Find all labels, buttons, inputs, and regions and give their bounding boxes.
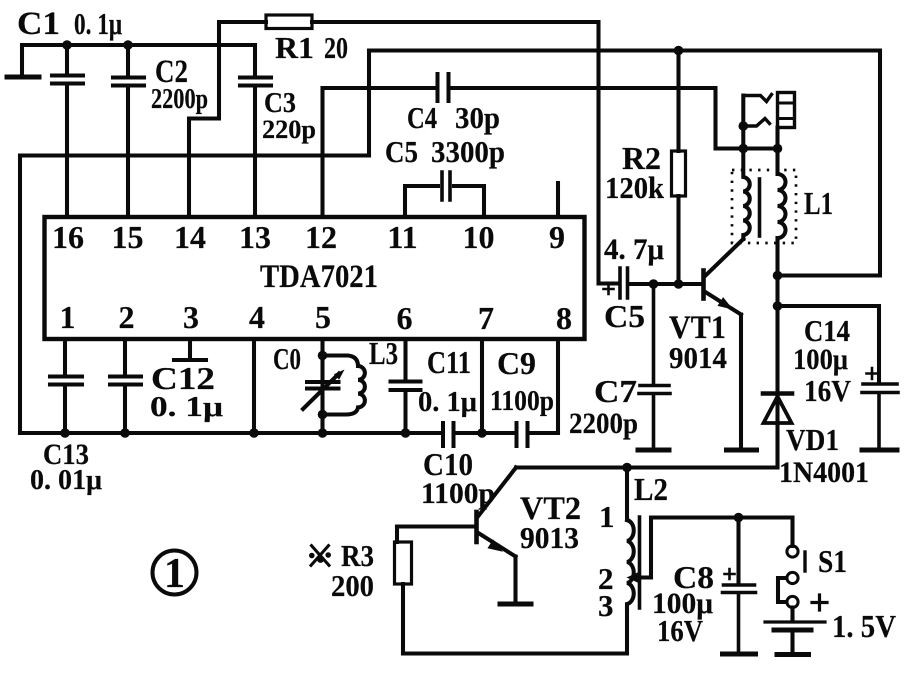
- ground battery: [777, 652, 809, 657]
- switch S1 contact 1: [787, 546, 798, 557]
- reference mark: [309, 545, 331, 567]
- battery long plate: [765, 620, 825, 623]
- svg-text:14: 14: [174, 219, 206, 255]
- antenna stub: [7, 75, 39, 80]
- svg-text:VD1: VD1: [786, 422, 839, 457]
- svg-text:7: 7: [478, 300, 494, 336]
- svg-text:16: 16: [52, 219, 84, 255]
- figure number circle: [153, 551, 197, 595]
- svg-text:C7: C7: [594, 373, 637, 409]
- node L3 top: [318, 351, 328, 361]
- L2 tap arrow: [634, 575, 651, 579]
- pin 9 stub: [556, 183, 560, 217]
- wire riser to top rail: [367, 51, 371, 156]
- svg-text:11: 11: [387, 219, 417, 255]
- inductor L2 winding: [627, 520, 634, 608]
- svg-text:30p: 30p: [455, 100, 500, 135]
- wire pin6 lead: [403, 339, 407, 379]
- ground bus: [20, 431, 558, 435]
- node bus pin7: [477, 428, 487, 438]
- capacitor C9: [517, 423, 528, 446]
- wire VT1 base node: [630, 282, 702, 286]
- svg-text:9013: 9013: [520, 520, 579, 555]
- svg-text:100μ: 100μ: [793, 343, 848, 376]
- node bus C11: [401, 428, 411, 438]
- svg-text:R1: R1: [275, 30, 314, 65]
- diode VD1 triangle: [764, 397, 792, 424]
- capacitor C13: [50, 377, 82, 434]
- svg-text:3300p: 3300p: [431, 134, 505, 169]
- svg-text:2200p: 2200p: [151, 83, 208, 115]
- capacitor C7: [639, 284, 670, 448]
- node C8 top: [734, 513, 744, 523]
- inductor L1 right winding: [778, 149, 786, 241]
- wire L1 down to VD1: [775, 240, 779, 468]
- svg-text:TDA7021: TDA7021: [260, 259, 378, 295]
- node C5 to C7: [649, 279, 659, 289]
- svg-text:12: 12: [305, 219, 337, 255]
- svg-text:3: 3: [598, 588, 614, 623]
- wire C14 branch: [778, 306, 880, 383]
- node plug bottom: [773, 144, 783, 154]
- wire VT2 emitter to ground: [513, 557, 517, 603]
- capacitor C14: [862, 384, 898, 448]
- node top-left C1 rail: [22, 45, 255, 74]
- switch S1 contact 2: [787, 572, 798, 583]
- wire R1 to C5 electrolytic: [312, 22, 617, 284]
- wire pin4 lead: [252, 339, 256, 433]
- wire C5b bridge pins 11-10: [405, 186, 484, 217]
- wire L2 bottom lead: [625, 608, 629, 654]
- switch S1 lever bar: [803, 552, 806, 571]
- resistor R2: [672, 151, 686, 196]
- resistor R2 leads: [676, 51, 680, 285]
- battery B1 lead: [790, 608, 794, 621]
- battery short plate: [774, 628, 811, 633]
- wire pin1 lead: [63, 339, 67, 375]
- resistor R3 leads: [397, 527, 403, 654]
- ground VT1: [727, 448, 757, 453]
- svg-text:0. 1μ: 0. 1μ: [74, 6, 122, 41]
- ground C14: [862, 448, 897, 453]
- wire bottom rail: [403, 651, 627, 655]
- wire top rail to right edge: [369, 51, 880, 276]
- ground C7: [638, 448, 669, 453]
- svg-text:0. 1μ: 0. 1μ: [418, 386, 478, 418]
- inductor L3: [323, 356, 365, 415]
- capacitor C10: [443, 423, 454, 446]
- wire pin14 to R1: [189, 22, 266, 217]
- svg-text:5: 5: [315, 299, 331, 335]
- node bus pin5: [318, 428, 328, 438]
- svg-text:1: 1: [60, 299, 76, 335]
- svg-text:L1: L1: [804, 185, 833, 221]
- svg-text:1: 1: [164, 551, 185, 597]
- ground VT2: [500, 602, 531, 607]
- svg-text:1. 5V: 1. 5V: [832, 608, 896, 644]
- node bus pin4: [249, 428, 259, 438]
- inductor L2 core: [638, 517, 642, 608]
- svg-text:1100p: 1100p: [490, 385, 554, 417]
- svg-text:C0: C0: [273, 341, 301, 376]
- capacitor C5 3300p: [442, 172, 450, 200]
- pin3 stub: [174, 339, 206, 360]
- wire pin7 lead: [480, 339, 484, 433]
- capacitor C8 lead: [736, 518, 740, 584]
- wire jack left contact riser: [741, 96, 745, 149]
- svg-text:10: 10: [463, 219, 495, 255]
- svg-text:16V: 16V: [657, 613, 704, 648]
- wire pin8 lead: [556, 339, 560, 433]
- L1 dotted box: [732, 170, 796, 243]
- svg-text:20: 20: [324, 30, 348, 65]
- wire C4 right lead to jack node: [452, 88, 778, 149]
- node L3 bottom: [318, 410, 328, 420]
- node C14 branch: [773, 301, 783, 311]
- capacitor C3: [240, 45, 271, 217]
- wire VT2 base: [397, 524, 475, 528]
- switch S1 bracket: [778, 578, 787, 602]
- svg-text:C5: C5: [604, 298, 645, 334]
- pin numbers bottom: [60, 299, 573, 336]
- svg-text:9: 9: [549, 219, 565, 255]
- earphone jack top contact: [743, 95, 771, 102]
- op-amp IC U1 TDA7021 body: [45, 217, 585, 339]
- svg-text:C5: C5: [385, 134, 418, 169]
- battery plus sign: [812, 595, 827, 610]
- svg-text:L3: L3: [369, 335, 398, 371]
- switch S1 contact 3: [787, 596, 798, 607]
- svg-text:0. 01μ: 0. 01μ: [30, 464, 103, 496]
- node VT2 collector: [622, 463, 632, 473]
- svg-text:2200p: 2200p: [569, 407, 638, 440]
- svg-text:1: 1: [599, 499, 615, 534]
- node L1 bottom: [773, 271, 783, 281]
- node jack mid: [739, 121, 749, 131]
- svg-text:15: 15: [112, 219, 144, 255]
- battery stem: [790, 633, 794, 653]
- resistor R3: [395, 542, 412, 584]
- pin numbers top: [52, 219, 565, 255]
- node jack left bottom: [739, 144, 749, 154]
- node bus C13: [60, 428, 70, 438]
- svg-text:C9: C9: [497, 345, 536, 381]
- earphone plug: [778, 93, 795, 128]
- wire L2 top lead: [625, 468, 629, 518]
- wire C4 left lead: [323, 86, 435, 90]
- node C2 top: [123, 40, 133, 50]
- svg-text:1N4001: 1N4001: [779, 456, 869, 489]
- svg-text:6: 6: [397, 300, 413, 336]
- svg-text:C1: C1: [17, 6, 60, 42]
- C14 plus sign: [867, 368, 878, 379]
- node R2 top: [674, 46, 684, 56]
- wire tap to switch rail: [651, 518, 793, 578]
- svg-text:220p: 220p: [262, 115, 316, 144]
- svg-text:16V: 16V: [804, 373, 852, 408]
- transistor VT2 emitter: [478, 533, 516, 557]
- inductor L1 core: [758, 179, 762, 236]
- wire pin2 lead: [123, 339, 127, 375]
- node C1 top: [62, 40, 72, 50]
- svg-text:4: 4: [249, 299, 265, 335]
- capacitor C1: [52, 45, 83, 217]
- svg-text:13: 13: [239, 219, 271, 255]
- svg-text:C11: C11: [427, 344, 471, 380]
- svg-text:120k: 120k: [605, 170, 665, 205]
- svg-text:1100p: 1100p: [421, 477, 495, 510]
- variable capacitor C0: [307, 382, 339, 389]
- C8 plus sign: [725, 569, 735, 579]
- svg-text:0. 1μ: 0. 1μ: [150, 391, 224, 423]
- wire mid horizontal rail: [20, 153, 369, 157]
- ground C8: [723, 652, 756, 657]
- C0 arrow: [303, 374, 339, 410]
- diode VD1 cathode bar: [763, 391, 792, 396]
- capacitor C2: [113, 45, 144, 217]
- C5 plus sign: [604, 284, 614, 294]
- transistor VT2 base bar: [474, 512, 479, 542]
- svg-text:4. 7μ: 4. 7μ: [604, 233, 664, 266]
- svg-text:3: 3: [183, 299, 199, 335]
- wire pin12 riser: [320, 88, 324, 217]
- capacitor C8: [723, 585, 756, 652]
- earphone jack middle contact: [743, 119, 769, 127]
- capacitor C5 4.7u electrolytic: [620, 268, 628, 298]
- svg-text:8: 8: [556, 300, 572, 336]
- capacitor C12: [110, 377, 141, 434]
- wire plug to node: [775, 128, 779, 149]
- wire pin5 lead: [320, 339, 324, 433]
- svg-text:9014: 9014: [669, 340, 727, 375]
- svg-text:2: 2: [119, 299, 135, 335]
- svg-text:200: 200: [331, 568, 374, 603]
- svg-text:L2: L2: [634, 471, 668, 507]
- transistor VT1 emitter: [705, 292, 742, 315]
- wire left rail: [18, 156, 22, 434]
- node R2 bottom: [674, 279, 684, 289]
- svg-text:C4: C4: [407, 100, 437, 135]
- svg-text:S1: S1: [818, 543, 847, 579]
- transistor VT2 collector: [478, 468, 517, 518]
- wire VD1 to collector rail: [516, 465, 778, 469]
- capacitor C11: [391, 382, 421, 434]
- wire L1 to VT1 collector: [705, 239, 744, 277]
- resistor R1: [266, 15, 312, 29]
- inductor L1 left winding: [743, 149, 749, 240]
- capacitor C4: [438, 74, 449, 101]
- node bus C12: [120, 428, 130, 438]
- transistor VT1 base bar: [701, 271, 706, 299]
- wire VT1 emitter to ground: [739, 315, 743, 449]
